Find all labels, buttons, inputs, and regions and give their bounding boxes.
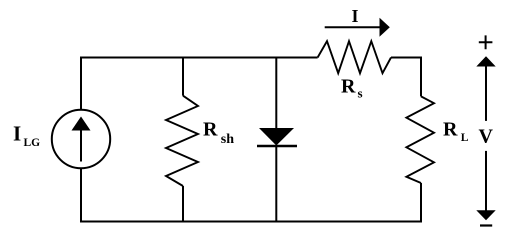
resistor R_s zigzag <box>318 41 391 73</box>
wire top-left horizontal <box>81 57 318 59</box>
svg-text:sh: sh <box>221 132 234 147</box>
svg-text:R: R <box>443 119 458 141</box>
current I arrowhead <box>380 18 390 37</box>
V down arrowhead <box>476 210 495 220</box>
svg-text:I: I <box>13 122 21 146</box>
wire left branch upper <box>80 57 82 110</box>
diode D1 triangle <box>259 128 294 146</box>
wire diode branch lower <box>275 146 277 223</box>
wire right branch upper <box>420 57 422 97</box>
svg-text:I: I <box>352 6 359 26</box>
V up arrowhead <box>476 56 495 66</box>
plus sign <box>479 35 493 49</box>
svg-text:R: R <box>203 119 218 141</box>
wire top-right horizontal <box>391 57 421 59</box>
wire bottom horizontal <box>81 221 421 223</box>
svg-text:V: V <box>479 126 494 148</box>
resistor R_L zigzag <box>406 96 434 183</box>
wire diode branch upper <box>275 57 277 131</box>
current source I_LG circle <box>52 110 110 168</box>
current source arrow shaft <box>80 129 82 162</box>
resistor R_sh zigzag <box>166 96 198 186</box>
svg-text:L: L <box>461 132 469 144</box>
diode D1 cathode bar <box>257 145 297 148</box>
current I arrow shaft <box>325 26 380 28</box>
V arrow lower shaft <box>485 151 487 211</box>
wire left branch lower <box>80 169 82 223</box>
minus sign <box>480 224 492 226</box>
wire R_sh branch upper <box>182 57 184 96</box>
wire R_sh branch lower <box>182 186 184 223</box>
svg-text:s: s <box>358 85 363 100</box>
svg-text:R: R <box>341 75 356 97</box>
svg-text:LG: LG <box>24 137 41 149</box>
V arrow upper shaft <box>485 66 487 121</box>
wire right branch lower <box>420 183 422 223</box>
current source arrowhead <box>72 117 91 131</box>
